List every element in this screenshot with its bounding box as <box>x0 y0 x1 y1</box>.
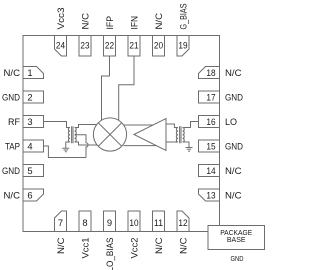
svg-text:17: 17 <box>206 91 215 102</box>
svg-text:N/C: N/C <box>225 189 242 200</box>
op-amp buffer A1 triangle <box>134 119 166 151</box>
wire T1 primary bottom to ground <box>66 142 70 148</box>
svg-text:1: 1 <box>27 67 32 78</box>
ground T2 <box>186 148 193 152</box>
wire mixer to amp top <box>123 124 160 126</box>
svg-text:N/C: N/C <box>153 237 164 254</box>
svg-text:IFN: IFN <box>128 16 139 30</box>
pin 22 pad <box>104 36 116 57</box>
pin 7 pad <box>55 211 67 232</box>
svg-text:IFP: IFP <box>104 16 115 30</box>
pin 18 pad <box>199 67 220 79</box>
wire T1 center tap with hop <box>75 135 89 158</box>
svg-text:N/C: N/C <box>225 165 242 176</box>
pin 13 pad <box>199 189 220 201</box>
svg-text:11: 11 <box>154 217 163 228</box>
wire T1 secondary bottom to mixer <box>75 142 100 145</box>
transformer T2 secondary winding <box>183 128 185 143</box>
wire amp to T2 top <box>157 124 178 128</box>
pin 2 pad <box>23 91 44 103</box>
pin 9 pad <box>104 211 116 232</box>
svg-text:N/C: N/C <box>225 67 242 78</box>
pin 6 pad <box>23 189 44 201</box>
wire T2 secondary bottom to ground <box>183 142 189 148</box>
svg-text:G_BIAS: G_BIAS <box>177 4 188 30</box>
pin 12 pad <box>177 211 189 232</box>
wire T1 secondary top to mixer <box>75 125 99 128</box>
pin 8 pad <box>79 211 91 232</box>
svg-text:RF: RF <box>8 116 20 127</box>
svg-text:Vcc2: Vcc2 <box>128 238 139 259</box>
pin 21 pad <box>128 36 140 57</box>
svg-text:GND: GND <box>225 91 243 102</box>
svg-text:N/C: N/C <box>4 67 21 78</box>
package outline <box>23 36 220 232</box>
svg-text:N/C: N/C <box>4 189 21 200</box>
svg-text:9: 9 <box>107 217 112 228</box>
mixer U1 circle-X <box>93 118 126 151</box>
pin 11 pad <box>153 211 165 232</box>
pin 14 pad <box>199 165 220 177</box>
transformer T1 core <box>72 126 73 143</box>
wire mixer to amp bottom <box>124 145 160 147</box>
pin 5 pad <box>23 165 44 177</box>
svg-text:GND: GND <box>231 254 244 263</box>
package base box <box>208 226 265 250</box>
ground T1 <box>62 148 69 152</box>
svg-text:N/C: N/C <box>79 13 90 30</box>
svg-text:23: 23 <box>80 39 89 50</box>
wire pin22 IFP to mixer <box>102 56 110 121</box>
svg-text:18: 18 <box>206 67 215 78</box>
svg-text:GND: GND <box>2 91 20 102</box>
pin 15 pad <box>199 140 220 152</box>
wire pin3 RF to T1 primary top <box>44 122 71 128</box>
svg-text:BASE: BASE <box>227 235 246 244</box>
svg-text:16: 16 <box>206 116 215 127</box>
pin 16 pad <box>199 116 220 128</box>
svg-text:10: 10 <box>129 217 138 228</box>
svg-text:15: 15 <box>206 140 215 151</box>
svg-text:2: 2 <box>27 91 32 102</box>
svg-text:24: 24 <box>56 39 65 50</box>
svg-text:13: 13 <box>206 189 215 200</box>
svg-text:21: 21 <box>129 39 138 50</box>
pin 20 pad <box>153 36 165 57</box>
svg-text:LO: LO <box>225 116 237 127</box>
svg-text:3: 3 <box>27 116 32 127</box>
pin 23 pad <box>79 36 91 57</box>
transformer T2 primary winding <box>176 128 178 143</box>
svg-text:7: 7 <box>58 217 63 228</box>
transformer T2 core <box>180 126 181 143</box>
svg-text:5: 5 <box>27 165 32 176</box>
wire pin4 TAP to center tap <box>44 146 87 158</box>
svg-text:N/C: N/C <box>177 237 188 254</box>
wire amp to T2 bottom <box>157 141 178 143</box>
pin 19 pad <box>177 36 189 57</box>
svg-text:Vcc1: Vcc1 <box>79 238 90 259</box>
pin 10 pad <box>128 211 140 232</box>
pin 3 pad <box>23 116 44 128</box>
wire pin21 IFN to mixer <box>119 56 134 122</box>
transformer T1 secondary winding <box>75 128 77 143</box>
svg-text:N/C: N/C <box>153 13 164 30</box>
wire T2 secondary top to pin16 LO <box>183 122 199 128</box>
svg-text:N/C: N/C <box>55 237 66 254</box>
svg-text:LO_BIAS: LO_BIAS <box>104 238 115 270</box>
svg-text:14: 14 <box>206 165 215 176</box>
svg-text:20: 20 <box>154 39 163 50</box>
svg-text:4: 4 <box>27 140 32 151</box>
pin 24 pad <box>55 36 67 57</box>
svg-text:GND: GND <box>225 140 243 151</box>
svg-text:6: 6 <box>27 189 32 200</box>
pin 1 pad <box>23 67 44 79</box>
transformer T1 primary winding <box>68 128 70 143</box>
svg-text:22: 22 <box>105 39 114 50</box>
svg-text:TAP: TAP <box>5 140 20 151</box>
svg-text:12: 12 <box>178 217 187 228</box>
svg-text:8: 8 <box>82 217 87 228</box>
svg-text:19: 19 <box>178 39 187 50</box>
svg-text:GND: GND <box>2 165 20 176</box>
pin 4 pad <box>23 140 44 152</box>
pin 17 pad <box>199 91 220 103</box>
svg-text:Vcc3: Vcc3 <box>55 8 66 30</box>
